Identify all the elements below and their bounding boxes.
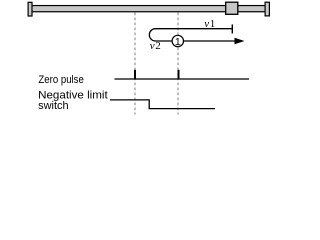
svg-text:1: 1 [175, 36, 181, 48]
svg-text:1: 1 [210, 18, 216, 30]
svg-text:Zero pulse: Zero pulse [38, 75, 84, 87]
svg-text:switch: switch [38, 100, 69, 112]
svg-text:2: 2 [155, 40, 161, 52]
svg-text:v: v [204, 18, 209, 30]
svg-text:v: v [150, 40, 155, 52]
